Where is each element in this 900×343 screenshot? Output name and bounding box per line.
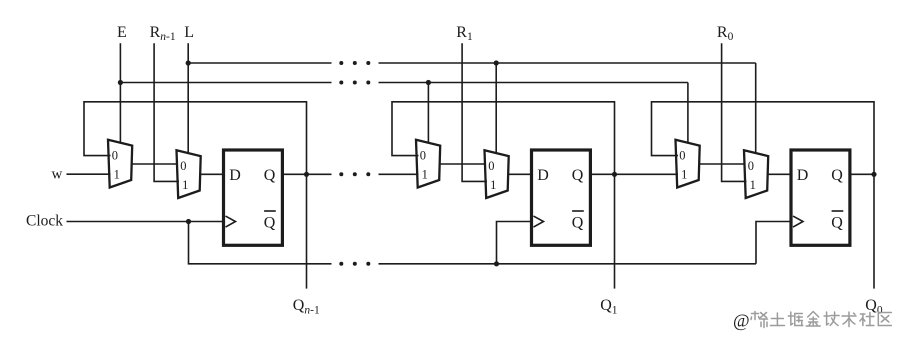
svg-text:1: 1 [182,178,188,192]
wire mux U1 output to mux U2 input 0 [131,163,177,165]
svg-text:R1: R1 [456,24,473,43]
wire mux U5 output to mux U6 input 0 [699,163,745,165]
svg-text:Q: Q [264,167,276,184]
wire feedback Q to mux U1 input 0 [84,102,307,175]
wire mux U4 output to FF2 D [508,173,531,175]
multiplexer U5 [676,140,700,188]
svg-text:Q: Q [572,167,584,184]
wire Clock riser stage3 [756,222,791,264]
multiplexer U4 [485,150,509,198]
multiplexer U3 [416,140,440,188]
wire Clock riser stage2 [497,222,532,264]
wire dots continuation L bus [339,61,370,65]
junction Clock at stage2 [494,261,499,266]
svg-text:0: 0 [112,149,118,163]
wire mux U2 output to FF1 D [200,173,223,175]
wire shift gap to stage2 mux input 1 [379,173,419,175]
svg-text:E: E [117,24,127,41]
svg-text:Rn-1: Rn-1 [150,24,176,43]
svg-text:1: 1 [422,168,428,182]
wire dots continuation shift chain [339,172,370,176]
wire L select drop to mux U6 [755,63,757,153]
svg-text:0: 0 [679,149,685,163]
wire FF2 Q output [590,173,614,175]
svg-text:D: D [537,167,549,184]
wire Clock bus right segment [379,263,757,265]
wire mux U6 output to FF3 D [768,173,791,175]
wire L select drop to mux U2 [187,43,189,153]
wire feedback Q to mux U5 input 0 [652,102,875,175]
junction Clock branch [186,219,191,224]
svg-text:1: 1 [114,168,120,182]
svg-text:D: D [229,167,241,184]
wire L bus right segment [379,62,756,64]
svg-text:D: D [797,167,809,184]
D flip-flop FF2 [532,150,591,245]
wire R input to mux U4 input 1 [462,43,487,181]
junction L at stage2 [494,60,499,65]
wire E select drop to mux U3 [427,83,429,143]
multiplexer U2 [177,150,201,198]
svg-text:1: 1 [681,168,687,182]
svg-text:Clock: Clock [26,212,63,229]
wire dots continuation E bus [339,81,370,85]
wire dots continuation Clock bus [339,262,370,266]
multiplexer U1 [108,140,132,188]
D flip-flop FF3 [791,150,850,245]
wire R input to mux U2 input 1 [154,43,179,181]
svg-text:Q0: Q0 [865,297,883,316]
wire w to mux U1 input 1 [67,173,111,175]
D flip-flop FF1 [224,150,283,245]
watermark juejin community [733,310,891,330]
svg-text:Qn-1: Qn-1 [293,297,320,316]
wire feedback Q to mux U3 input 0 [392,102,615,175]
svg-text:Q: Q [831,167,843,184]
wire R input to mux U6 input 1 [722,43,747,181]
junction FF1 Q node [304,172,309,177]
svg-text:0: 0 [488,159,494,173]
wire FF3 Q output [850,173,874,175]
svg-text:0: 0 [420,149,426,163]
wire Clock input [67,221,224,223]
wire Q1 output drop [614,174,616,288]
svg-text:Q: Q [831,214,843,231]
wire E select drop to mux U5 [687,83,689,143]
svg-text:Q1: Q1 [600,297,618,316]
wire Q0 output drop [873,174,875,288]
multiplexer U6 [744,150,768,198]
svg-text:L: L [184,24,194,41]
junction FF3 Q node [871,172,876,177]
wire shift stage1 Q to gap [307,173,332,175]
svg-text:0: 0 [748,159,754,173]
wire FF1 Q output [282,173,306,175]
wire mux U3 output to mux U4 input 0 [439,163,485,165]
wire L select drop to mux U4 [495,63,497,153]
wire Clock riser stage1 [189,222,332,264]
svg-text:Q: Q [572,214,584,231]
wire Qn-1 output drop [306,174,308,288]
wire E bus left segment [120,82,331,84]
svg-text:w: w [52,166,63,182]
svg-text:1: 1 [490,178,496,192]
svg-text:0: 0 [180,159,186,173]
svg-text:1: 1 [750,178,756,192]
junction E at stage2 [426,80,431,85]
wire L bus left segment [188,62,331,64]
wire shift stage2 Q to stage3 mux input 1 [615,173,679,175]
wire E bus right segment [379,82,688,84]
junction L at stage1 [186,60,191,65]
svg-text:@: @ [733,310,750,330]
svg-text:R0: R0 [717,24,734,43]
wire E select drop to mux U1 [119,43,121,143]
junction E at stage1 [118,80,123,85]
junction FF2 Q node [612,172,617,177]
svg-text:Q: Q [264,214,276,231]
